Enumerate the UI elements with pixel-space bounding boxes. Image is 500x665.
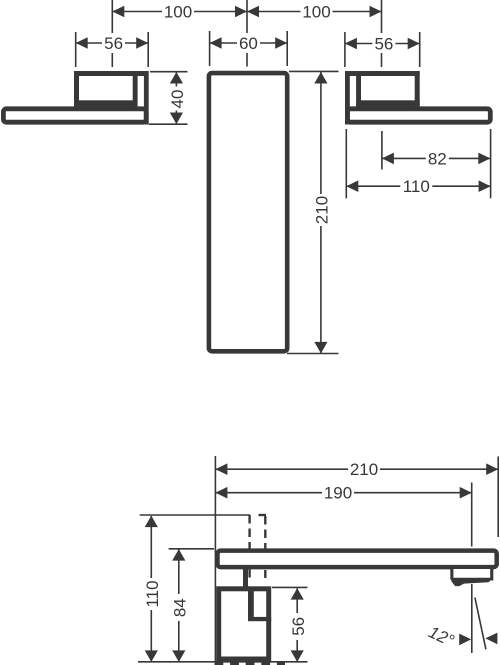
dim 190 extension right bbox=[471, 483, 473, 547]
extension lines 56 right bbox=[345, 32, 420, 67]
handle body partition vertical bbox=[248, 588, 254, 621]
left handle escutcheon bottom border bbox=[74, 100, 138, 107]
dim 56 left bbox=[76, 34, 149, 54]
extension lines 60 bbox=[210, 31, 288, 66]
center line spout bbox=[246, 0, 248, 67]
right handle outer left edge bbox=[345, 71, 350, 125]
hidden valve dashed line right bbox=[264, 516, 266, 578]
12 deg vertical reference line bbox=[471, 584, 473, 653]
right handle escutcheon left border bbox=[356, 71, 361, 111]
dim 82 bbox=[382, 149, 490, 168]
svg-text:84: 84 bbox=[170, 598, 189, 617]
12 deg arrow right bbox=[485, 633, 497, 645]
dim 56 right bbox=[345, 34, 420, 54]
dim 56 side bbox=[288, 588, 308, 662]
dim 110 front bbox=[346, 177, 490, 196]
svg-text:82: 82 bbox=[428, 149, 447, 168]
svg-text:56: 56 bbox=[289, 617, 308, 636]
dim 84 side bbox=[170, 549, 190, 662]
left handle escutcheon right border bbox=[133, 71, 138, 111]
svg-text:56: 56 bbox=[374, 35, 393, 54]
wall line side view bbox=[214, 456, 216, 662]
dim 110 side bbox=[142, 516, 162, 662]
svg-text:210: 210 bbox=[350, 460, 378, 479]
extension line 84 top (side) bbox=[169, 548, 214, 550]
outlet tip slab bbox=[451, 578, 493, 586]
dim 210 front extension top bbox=[289, 70, 339, 72]
right handle lever bbox=[348, 109, 491, 122]
12 deg slanted line bbox=[475, 598, 486, 650]
dashed rect top segment bbox=[259, 514, 267, 516]
dim 210 side bbox=[215, 460, 498, 480]
hidden valve dashed line left bbox=[248, 515, 250, 578]
dim 40 bbox=[167, 72, 187, 124]
left handle escutcheon left border bbox=[74, 71, 79, 111]
dim 210 side extension right bbox=[497, 457, 499, 538]
dim 100 left bbox=[112, 2, 247, 22]
dim 210 front bbox=[312, 72, 332, 353]
dim 82 extension bbox=[381, 131, 383, 170]
left handle lever bbox=[3, 109, 146, 122]
outlet box bbox=[453, 569, 491, 579]
svg-text:110: 110 bbox=[403, 177, 430, 196]
svg-text:210: 210 bbox=[312, 196, 331, 224]
handle lever (side view) bbox=[243, 565, 248, 589]
right handle top bar bbox=[345, 71, 420, 76]
svg-text:60: 60 bbox=[239, 34, 258, 53]
svg-text:110: 110 bbox=[143, 580, 162, 607]
svg-text:100: 100 bbox=[164, 3, 192, 22]
svg-text:12°: 12° bbox=[426, 622, 458, 650]
handle body partition horizontal bbox=[248, 617, 271, 621]
dim 40 extension bottom bbox=[149, 123, 188, 125]
dim 110 front extensions bbox=[346, 129, 490, 198]
center line right handle bbox=[381, 0, 383, 67]
12 deg arrow left bbox=[459, 634, 471, 646]
dim 210 front extension bottom bbox=[287, 353, 339, 355]
svg-text:100: 100 bbox=[302, 3, 330, 22]
extension line 110 top (side) bbox=[140, 514, 250, 516]
spout plate bbox=[209, 73, 287, 351]
handle body (side view) bbox=[219, 589, 269, 659]
right handle escutcheon bottom border bbox=[356, 100, 420, 107]
dim 60 bbox=[210, 34, 288, 54]
left handle outer right edge bbox=[144, 71, 149, 125]
spout side bar bbox=[218, 551, 497, 568]
svg-text:56: 56 bbox=[104, 34, 123, 53]
svg-text:40: 40 bbox=[168, 90, 187, 109]
dim 190 bbox=[215, 483, 471, 503]
center line left handle bbox=[111, 0, 113, 67]
left handle top bar bbox=[74, 71, 149, 76]
extension line 56 top (side) bbox=[272, 586, 308, 588]
bottom reference line bbox=[138, 661, 308, 663]
dim 40 extension top bbox=[150, 71, 188, 73]
dim 100 right bbox=[247, 2, 382, 22]
extension lines 56 left bbox=[76, 32, 149, 67]
right handle escutcheon right border bbox=[415, 71, 420, 111]
svg-text:190: 190 bbox=[324, 484, 352, 503]
hidden cut line below handle body bbox=[215, 662, 286, 665]
